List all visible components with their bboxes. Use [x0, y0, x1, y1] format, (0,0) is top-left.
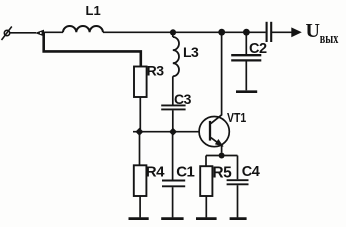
- svg-text:вых: вых: [320, 31, 339, 47]
- svg-text:C4: C4: [242, 164, 260, 180]
- svg-text:L1: L1: [86, 3, 101, 18]
- svg-text:C3: C3: [174, 91, 192, 107]
- svg-text:C2: C2: [249, 41, 267, 57]
- svg-text:VT1: VT1: [227, 110, 246, 125]
- svg-text:C1: C1: [176, 164, 194, 181]
- svg-text:R5: R5: [212, 165, 232, 182]
- svg-text:R4: R4: [146, 164, 165, 181]
- svg-text:U: U: [306, 20, 320, 42]
- svg-text:R3: R3: [147, 63, 165, 79]
- svg-text:L3: L3: [183, 44, 199, 60]
